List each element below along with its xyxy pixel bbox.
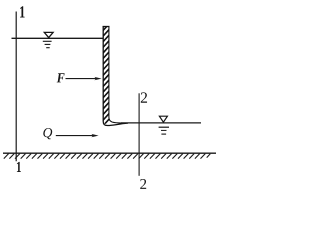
Q label <box>43 128 52 139</box>
label 2 (bottom) <box>140 179 146 189</box>
gate top edge <box>103 26 110 28</box>
label 1 (bottom) <box>17 162 21 172</box>
downstream water surface line <box>121 122 201 124</box>
F label <box>57 73 65 82</box>
gate (hatched vertical bar) <box>101 16 128 128</box>
label 1 (top) <box>20 6 25 17</box>
ground line <box>3 152 216 154</box>
gate left edge + outer lip curve <box>103 26 128 126</box>
downstream water-surface symbol (nabla) <box>159 116 169 134</box>
Q arrow <box>56 134 99 137</box>
section line 2-2 (right vertical) <box>138 93 140 176</box>
F arrow <box>66 77 102 80</box>
label 2 (top) <box>141 92 147 102</box>
ground hatching <box>4 154 211 159</box>
upstream water-surface symbol (nabla) <box>43 32 53 47</box>
upstream water surface line <box>12 37 104 39</box>
gate right edge + inner lip curve <box>109 26 127 123</box>
section line 1-1 (left vertical) <box>15 12 17 162</box>
